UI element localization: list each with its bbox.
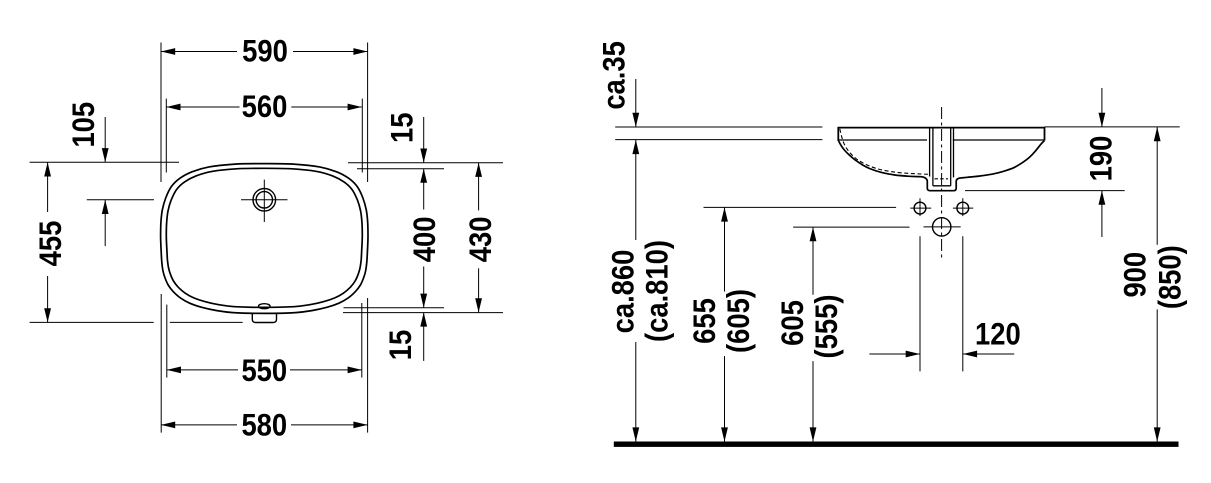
dimension 430 arrows <box>475 163 482 177</box>
svg-text:655: 655 <box>687 298 722 344</box>
dimension 605 line <box>812 227 814 295</box>
svg-text:900: 900 <box>1118 252 1153 298</box>
svg-text:560: 560 <box>242 89 288 124</box>
drain outlet circle <box>933 218 951 236</box>
front overflow tab <box>252 314 276 323</box>
bowl inner surface dashed <box>840 129 930 175</box>
drain hidden line in tube <box>935 178 949 180</box>
dimension ca.860 floor arrow <box>632 427 639 441</box>
svg-text:105: 105 <box>66 102 101 148</box>
dimension 900 line <box>1156 127 1158 245</box>
svg-text:590: 590 <box>242 34 288 69</box>
dimension 120 arrows <box>906 351 920 358</box>
fixing hole right circle <box>957 202 969 214</box>
dimension 400 bottom arrow <box>420 294 427 308</box>
dimension 560 line <box>166 106 239 108</box>
svg-text:455: 455 <box>33 221 68 267</box>
svg-text:400: 400 <box>407 217 442 263</box>
dimension 455 line <box>47 162 49 212</box>
extension line right outer bottom <box>367 298 369 433</box>
dimension 15 top arrows <box>420 149 427 163</box>
rim right edge <box>1044 127 1046 141</box>
faucet hole outer circle <box>253 189 276 212</box>
dimension 550 line <box>167 369 238 371</box>
extension line bottom outer rightwards <box>343 312 503 314</box>
extension line top edge leftwards <box>30 161 179 163</box>
svg-text:15: 15 <box>383 330 418 360</box>
extension line tab bottom leftwards <box>30 321 154 323</box>
dimension 105 lines <box>104 117 106 162</box>
svg-text:(555): (555) <box>809 295 844 359</box>
dimension 400 line <box>423 169 425 210</box>
washbasin top view outer rim <box>161 164 368 314</box>
svg-text:550: 550 <box>241 353 287 388</box>
fixing hole right crosshair <box>953 207 973 209</box>
svg-text:190: 190 <box>1084 136 1119 182</box>
extension line left outer top <box>160 43 162 183</box>
svg-text:(ca.810): (ca.810) <box>640 240 675 342</box>
extension line drain foot rightwards <box>965 190 1125 192</box>
dimension 550 arrows <box>167 367 181 374</box>
svg-text:580: 580 <box>241 408 287 443</box>
drain outlet crosshair <box>924 226 961 228</box>
drain tube inner bottom <box>933 185 951 187</box>
dimension ca.35 upper line <box>635 79 637 127</box>
svg-text:ca.860: ca.860 <box>606 250 641 334</box>
dimension 655 arrows <box>721 207 728 221</box>
bowl outer contour with drain foot <box>839 141 1045 191</box>
extension line right inner bottom <box>361 303 363 378</box>
extension line fixing holes level <box>704 206 897 208</box>
dimension 590 line <box>161 51 237 53</box>
countertop line left <box>615 126 822 128</box>
extension line right outer top <box>367 43 369 183</box>
dimension 190 arrows <box>1099 113 1106 127</box>
dimension 15 top line <box>423 117 425 163</box>
dimension 605 arrows <box>810 227 817 241</box>
dimension 455 arrows <box>44 162 51 176</box>
extension line below right hole <box>962 236 964 371</box>
counter underside line left <box>615 139 822 141</box>
dimension 580 arrows <box>161 422 175 429</box>
svg-text:ca.35: ca.35 <box>597 41 632 110</box>
faucet hole crosshair vertical <box>263 180 265 222</box>
fixing hole left crosshair <box>910 207 931 209</box>
logo oval on rim <box>259 304 271 309</box>
svg-text:15: 15 <box>385 113 420 143</box>
countertop line right <box>1045 126 1180 128</box>
washbasin top view inner rim <box>166 168 362 307</box>
dimension 580 line <box>161 424 237 426</box>
svg-text:(850): (850) <box>1153 245 1188 309</box>
dimension ca.35 arrows <box>632 113 639 127</box>
faucet hole crosshair horizontal <box>241 199 288 201</box>
dimension 105 arrows <box>102 148 109 162</box>
drain tube outer wall left <box>929 127 931 176</box>
extension line drain level <box>793 226 909 228</box>
svg-text:120: 120 <box>975 317 1021 352</box>
extension line bottom inner rightwards <box>344 307 445 309</box>
drain tube inner wall right <box>950 127 952 185</box>
faucet hole inner circle <box>256 192 272 208</box>
dimension 900 arrows <box>1154 127 1161 141</box>
dimension 655 line <box>724 207 726 291</box>
svg-text:(605): (605) <box>721 289 756 353</box>
floor line <box>614 442 1179 447</box>
dimension 190 lines <box>1101 88 1103 127</box>
dimension 15 bottom line <box>423 312 425 361</box>
extension line left inner bottom <box>166 305 168 378</box>
extension line right inner top <box>361 99 363 173</box>
dimension 15 bottom arrow <box>420 312 427 326</box>
vertical centerline dash-dot <box>941 107 943 261</box>
dimension 560 arrows <box>166 104 180 111</box>
svg-text:605: 605 <box>775 300 810 346</box>
extension line left outer bottom <box>160 294 162 433</box>
extension line top outer rightwards <box>348 162 503 164</box>
dimension 590 arrows <box>161 48 175 55</box>
dimension 120 line <box>869 353 920 355</box>
extension line left inner top <box>165 99 167 173</box>
fixing hole left circle <box>914 202 926 214</box>
dimension 430 line <box>478 163 480 211</box>
svg-text:430: 430 <box>463 217 498 263</box>
drain tube outer wall right <box>953 127 955 177</box>
extension line below left hole <box>919 236 921 371</box>
basin rim top edge <box>838 127 1044 129</box>
dimension ca.860 line <box>635 140 637 240</box>
extension line top inner rightwards <box>357 168 444 170</box>
rim left edge <box>837 127 839 141</box>
drain tube inner wall left <box>932 127 934 185</box>
extension line hole center stub <box>87 199 154 201</box>
rim flange underside line <box>838 139 927 141</box>
